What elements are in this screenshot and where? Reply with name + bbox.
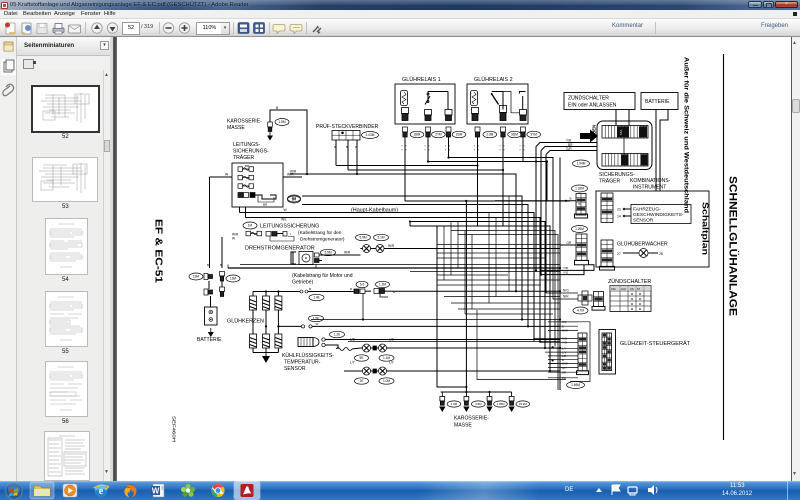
svg-text:KÜHLFLÜSSIGKEITS-: KÜHLFLÜSSIGKEITS-: [282, 352, 334, 359]
svg-text:B: B: [570, 197, 572, 201]
svg-text:KAROSSERIE-: KAROSSERIE-: [227, 119, 262, 125]
svg-text:GLÜHRELAIS 2: GLÜHRELAIS 2: [474, 76, 513, 83]
svg-text:TRÄGER: TRÄGER: [233, 154, 255, 161]
svg-text:3QM: 3QM: [511, 133, 518, 137]
svg-text:27: 27: [617, 252, 621, 256]
svg-text:KOMBINATIONS-: KOMBINATIONS-: [630, 178, 671, 184]
svg-text:(Kabelstrang für den: (Kabelstrang für den: [298, 230, 342, 236]
connector cross zuendschalter: [578, 291, 592, 305]
glow plug R1: [250, 296, 257, 310]
svg-text:BATTERIE: BATTERIE: [197, 337, 222, 343]
connector 19M: [189, 273, 203, 280]
diode D2: [374, 245, 386, 253]
svg-text:ACC: ACC: [621, 288, 626, 291]
relay K1 contact arm: [425, 92, 430, 105]
wires diode group: [344, 348, 560, 371]
svg-text:W/R: W/R: [388, 244, 395, 248]
svg-text:MASSE: MASSE: [227, 125, 245, 131]
svg-text:Y/G: Y/G: [563, 271, 569, 275]
svg-text:EIN oder ANLASSEN: EIN oder ANLASSEN: [568, 103, 617, 109]
connector pair row 1: [204, 274, 213, 280]
bus corner y230 down: [451, 231, 555, 347]
connector 1.05M: [494, 401, 508, 407]
svg-text:15A: 15A: [619, 130, 623, 135]
connector 2TM: [432, 131, 446, 137]
mesh row y296: [444, 296, 560, 298]
svg-text:1.05M: 1.05M: [496, 402, 505, 406]
connector boxes row1 right: [374, 289, 396, 294]
connector ladder 1.32M: [576, 194, 586, 216]
svg-text:B: B: [579, 202, 581, 206]
svg-text:W: W: [284, 208, 288, 212]
svg-text:º: º: [474, 149, 476, 153]
wire W/L from fuse box bottom: [245, 207, 247, 218]
connector 13M: [226, 275, 240, 282]
glow indicator lamp: [617, 249, 663, 258]
svg-text:Drehstromgenerator): Drehstromgenerator): [300, 237, 345, 243]
instrument cluster box: [596, 191, 709, 267]
wire into zuendschalter N/G: [546, 292, 578, 294]
wmp: [63, 484, 77, 497]
connector 5.6M: [356, 281, 368, 287]
connector 1.69M: [567, 382, 585, 389]
svg-text:SEF460H: SEF460H: [172, 416, 177, 442]
tool icon 2: [254, 23, 265, 34]
svg-text:1.8M: 1.8M: [278, 120, 285, 124]
wire ground top to node B: [270, 110, 307, 174]
svg-text:1.0M: 1.0M: [383, 379, 390, 383]
connector 5.1M: [374, 234, 389, 240]
junction dots mesh: [465, 200, 561, 349]
adobe reader active button: [234, 482, 260, 500]
bus wire y201 haupt: [405, 200, 570, 202]
svg-text:1.94M: 1.94M: [577, 162, 586, 166]
bundle wire drehstrom upper: [227, 265, 229, 269]
mesh left connects: [437, 245, 560, 286]
connector 1.2M row: [376, 281, 390, 287]
speed sensor box FAHRZEUG-GESCHWINDIGKEITS-SENSOR: [631, 205, 691, 224]
connector 1.32M: [572, 185, 588, 192]
svg-text:15.2M: 15.2M: [519, 402, 528, 406]
svg-text:R: R: [334, 145, 336, 149]
wire row2 long: [311, 319, 560, 321]
svg-text:3YM: 3YM: [530, 133, 537, 137]
next page: [107, 23, 117, 33]
svg-text:GLÜHRELAIS 1: GLÜHRELAIS 1: [402, 76, 441, 83]
svg-text:º: º: [445, 149, 447, 153]
fusible link F6: [266, 232, 287, 237]
connector 1.8M: [275, 119, 289, 126]
connector 1.26M: [572, 226, 588, 233]
wire loop PU row: [477, 310, 566, 380]
print icon: [53, 28, 64, 33]
glow plug R4: [250, 334, 257, 348]
svg-text:L/Y: L/Y: [389, 361, 395, 365]
bus wire y170: [348, 170, 503, 226]
control unit harness connector: [578, 333, 587, 371]
svg-text:5.1M: 5.1M: [377, 236, 384, 240]
bus wire y161: [428, 161, 523, 163]
sep: [85, 22, 86, 34]
connector 1.2E: [330, 331, 345, 337]
arrow OBEN: [580, 130, 598, 143]
envelope icon: [69, 25, 81, 33]
harness feeder wires: [548, 322, 578, 378]
glow plug row1 wires: [253, 290, 280, 326]
svg-text:8M: 8M: [292, 197, 297, 201]
svg-text:(Kabelstrang für Motor und: (Kabelstrang für Motor und: [292, 273, 353, 279]
connector ladder A kombinationsinstrument: [601, 193, 613, 222]
svg-text:B: B: [276, 106, 279, 110]
connector 5.5M: [321, 249, 336, 255]
bus corner y221 down: [410, 222, 545, 349]
fuse strip 1: [602, 126, 648, 139]
svg-text:L/B: L/B: [389, 338, 394, 342]
vertical G/R down: [545, 155, 547, 294]
relay K2 pin mid: [500, 106, 507, 121]
connector ladder 1.26M: [576, 234, 587, 260]
explorer button: [30, 482, 54, 499]
comment bubble 2: [290, 25, 302, 34]
wire W down left: [209, 177, 211, 268]
svg-text:W/R: W/R: [344, 251, 351, 255]
svg-text:L: L: [290, 232, 292, 236]
svg-text:GLÜHKERZEN: GLÜHKERZEN: [227, 318, 264, 325]
wires W/R alternator: [322, 254, 361, 256]
wire W/R right of fuse box: [283, 176, 302, 178]
svg-text:BATTERIE: BATTERIE: [645, 99, 670, 105]
svg-text:L/B: L/B: [350, 338, 355, 342]
svg-text:L/Y: L/Y: [350, 361, 356, 365]
relay K2 contact fixed: [520, 92, 526, 110]
inline connector mid bus: [301, 322, 560, 328]
bus corner y196 down: [302, 196, 522, 320]
vertical Y/R down: [535, 147, 537, 271]
bundle wire y271: [410, 271, 560, 273]
wire loop BR inside fuse box: [255, 195, 276, 199]
mesh vertical x509: [508, 196, 510, 291]
svg-text:º: º: [504, 149, 506, 153]
connector 2SM: [452, 131, 466, 137]
svg-text:SCHNELLGLÜHANLAGE: SCHNELLGLÜHANLAGE: [727, 176, 740, 316]
svg-text:Getriebe): Getriebe): [292, 280, 314, 286]
connector 2E: [355, 378, 369, 384]
svg-text:5.9M: 5.9M: [359, 236, 366, 240]
relay K1 top link: [428, 91, 448, 93]
alternator connector pins: [315, 253, 323, 263]
svg-text:1.26M: 1.26M: [575, 227, 584, 231]
sensor zigzag wire: [336, 348, 352, 351]
link square diodes row2: [373, 369, 377, 374]
svg-text:19M: 19M: [193, 275, 200, 279]
svg-text:GLÜHÜBERWACHER: GLÜHÜBERWACHER: [617, 241, 668, 248]
svg-text:SENSOR: SENSOR: [284, 366, 306, 372]
svg-text:4.9M: 4.9M: [475, 402, 482, 406]
svg-text:G/R: G/R: [566, 147, 572, 151]
svg-text:23: 23: [617, 208, 621, 212]
svg-text:TRÄGER: TRÄGER: [599, 178, 621, 185]
connector 4.7M: [573, 307, 588, 314]
svg-text:2TM: 2TM: [435, 133, 442, 137]
wire into zuendschalter N/R: [553, 201, 578, 299]
relay K2 pin 3 below: [521, 127, 526, 137]
connector 1.4E: [309, 294, 324, 300]
wire to battery: [210, 296, 212, 307]
svg-text:B: B: [220, 263, 222, 267]
wire labels column: [562, 320, 568, 380]
svg-text:5.5M: 5.5M: [324, 251, 331, 255]
svg-text:W: W: [316, 322, 319, 326]
svg-text:LEITUNGSSICHERUNG: LEITUNGSSICHERUNG: [260, 224, 319, 230]
svg-text:1.5E: 1.5E: [313, 317, 320, 321]
svg-text:1.9M: 1.9M: [451, 402, 458, 406]
ground G2 1.9M: [440, 392, 445, 405]
svg-text:OFF: OFF: [611, 288, 616, 291]
wire Y/B from ladder 1.26M: [540, 265, 594, 271]
sep: [306, 22, 307, 34]
fuse box sicherungstraeger: [597, 121, 652, 170]
ground G4 1.05M: [487, 392, 492, 405]
junction dots top buses: [306, 156, 548, 175]
svg-text:Y/B: Y/B: [563, 266, 568, 270]
svg-text:W: W: [152, 486, 160, 495]
mesh vertical x489: [488, 213, 490, 304]
main ground vertical: [465, 201, 467, 392]
saveas icon: [22, 23, 31, 34]
temp sensor connector: [322, 338, 332, 347]
svg-text:Schaltplan: Schaltplan: [701, 202, 710, 255]
svg-text:26: 26: [659, 252, 663, 256]
long row y341: [348, 341, 560, 343]
svg-text:SENSOR: SENSOR: [633, 218, 654, 224]
connector J1 pruef-steckverbinder grid: [332, 131, 360, 141]
fusible link F3: [238, 184, 254, 189]
svg-text:GESCHWINDIGKEITS-: GESCHWINDIGKEITS-: [633, 212, 684, 218]
svg-text:W/L: W/L: [281, 218, 287, 222]
svg-text:W/R: W/R: [290, 170, 297, 174]
svg-text:LEITUNGS-: LEITUNGS-: [233, 142, 260, 148]
wire W left of fuse box: [210, 176, 233, 178]
svg-text:º: º: [500, 149, 502, 153]
glow plug R5: [263, 334, 270, 348]
svg-text:OR: OR: [567, 241, 572, 245]
svg-text:W: W: [232, 237, 235, 241]
connector 15.2M: [516, 401, 530, 407]
svg-text:R: R: [350, 287, 353, 291]
relay K2 gluehrelais 2 box: [467, 84, 528, 124]
svg-text:º: º: [524, 149, 526, 153]
svg-text:B: B: [346, 145, 348, 149]
fusible link F1: [238, 167, 254, 172]
svg-text:1.69M: 1.69M: [571, 383, 580, 387]
svg-text:1.2E: 1.2E: [334, 333, 341, 337]
battery box BATTERIE: [641, 93, 678, 110]
wire W from fuse box bottom: [239, 207, 241, 213]
internet explorer: [94, 484, 109, 497]
wire batterie feed B: [660, 110, 668, 192]
zoom in: [179, 23, 189, 33]
relay K1 gluehrelais 1 box: [395, 84, 455, 124]
wire drop relay2 pin2: [502, 137, 504, 170]
relay K2 switch blade: [491, 93, 499, 105]
diode D1: [361, 245, 373, 253]
zoom out: [163, 23, 173, 33]
ground arrow 5: [508, 407, 514, 413]
connector 5E: [355, 355, 369, 361]
ground G3 4.9M: [464, 392, 469, 405]
bundle wire drehstrom thick: [228, 267, 560, 269]
svg-text:ZÜNDSCHALTER: ZÜNDSCHALTER: [608, 278, 651, 285]
page margin rule: [723, 54, 725, 440]
ground arrow 2: [439, 407, 445, 413]
svg-text:B: B: [309, 287, 311, 291]
connector pair row 2: [204, 289, 213, 295]
bus wire grounds vertical: [437, 226, 466, 387]
mesh vertical x472: [471, 235, 473, 310]
svg-text:e: e: [99, 486, 104, 497]
wire row1 to right: [316, 291, 354, 293]
svg-text:º: º: [520, 149, 522, 153]
svg-text:2SM: 2SM: [456, 133, 463, 137]
svg-text:1M: 1M: [248, 224, 253, 228]
svg-text:OBEN: OBEN: [592, 125, 597, 137]
svg-text:B: B: [207, 263, 209, 267]
relay K2 coil: [471, 91, 478, 106]
svg-text:1.4E: 1.4E: [313, 296, 320, 300]
relay K1 pin mid: [425, 110, 432, 121]
ground G5 15.2M: [509, 392, 514, 405]
svg-text:2E: 2E: [360, 379, 364, 383]
bus wire grounds: [441, 391, 512, 393]
tool icon 1: [238, 23, 249, 34]
relay K2 top link: [492, 91, 503, 93]
svg-text:14: 14: [617, 215, 621, 219]
system tray: [565, 487, 573, 493]
fusible link F4: [238, 193, 255, 198]
svg-text:DREHSTROMGENERATOR: DREHSTROMGENERATOR: [245, 246, 315, 252]
svg-text:2.3M: 2.3M: [486, 133, 493, 137]
connector 1.9M: [447, 401, 461, 407]
connector 4.9M: [472, 401, 486, 407]
bus corner y234 down: [458, 235, 558, 391]
wire into ladder 1.32M: [495, 200, 576, 202]
share arrows: [313, 28, 321, 32]
svg-text:ZÜNDSCHALTER: ZÜNDSCHALTER: [568, 95, 609, 102]
svg-text:BR: BR: [263, 203, 268, 207]
vertical BR down: [540, 151, 542, 275]
wire loop around control unit: [548, 322, 590, 382]
coolant temp sensor body: [298, 338, 319, 347]
fuse link row1: [354, 289, 371, 294]
start orb: [5, 482, 23, 500]
switch box ZUENDSCHALTER EIN oder ANLASSEN: [564, 93, 635, 110]
relay K2 inner wire: [503, 92, 520, 113]
thumbnails: [31, 85, 100, 133]
connector 2BM: [410, 131, 424, 137]
relay K1 pin right: [445, 110, 452, 121]
sep: [233, 22, 234, 34]
mesh row y309: [458, 308, 560, 310]
bus corner y204 down: [302, 205, 528, 327]
svg-text:KAROSSERIE-: KAROSSERIE-: [454, 416, 489, 422]
save icon (disabled): [37, 24, 47, 34]
connector 8M: [288, 195, 301, 202]
fusible link F2: [238, 175, 254, 180]
connector ladder B kombinationsinstrument: [601, 240, 613, 266]
temp sensor wires right: [332, 339, 560, 341]
fuse strip 2 dark cells: [622, 154, 648, 165]
relay K1 pin 2 below: [426, 127, 431, 137]
connector 1.1M: [379, 355, 394, 361]
bus wire y165: [336, 166, 478, 227]
chrome: [212, 484, 225, 497]
glow plug R2: [263, 296, 270, 310]
inline connector row1: [300, 287, 316, 293]
ignition switch contact table: [610, 286, 651, 312]
vertical wire x560: [559, 158, 561, 391]
bus corner W/L down: [246, 218, 541, 342]
connector 1.94M: [573, 160, 590, 167]
ground arrow 3: [463, 407, 469, 413]
connector 1.5E: [309, 315, 324, 321]
connector 6M: [288, 196, 301, 203]
svg-text:SICHERUNGS-: SICHERUNGS-: [233, 149, 269, 155]
wire drop relay1 pin2: [427, 137, 429, 162]
connector pin row 2: [220, 287, 225, 297]
glow plug row2 bottom wires: [253, 348, 278, 353]
relay K2 pin 1 below: [475, 127, 480, 137]
wire Y/G from ladder 1.26M: [540, 265, 584, 275]
connector 3QM: [508, 131, 522, 137]
glow plug R3: [275, 296, 282, 310]
svg-text:º: º: [478, 149, 480, 153]
relay K2 pin 2 below: [501, 127, 506, 137]
diode D4: [377, 344, 389, 352]
wire drop relay2 pin1: [477, 137, 479, 166]
svg-text:5E: 5E: [360, 356, 364, 360]
wire down from fuse row: [221, 237, 223, 268]
firefox: [124, 484, 137, 497]
svg-text:FAHRZEUG-: FAHRZEUG-: [633, 207, 661, 213]
svg-text:º: º: [402, 149, 404, 153]
sep: [269, 22, 270, 34]
svg-text:4.7M: 4.7M: [577, 309, 584, 313]
fuse strip 2: [602, 154, 648, 167]
connector ladder zuendschalter: [594, 292, 604, 307]
svg-text:13M: 13M: [230, 277, 237, 281]
svg-text:ON: ON: [630, 288, 634, 291]
sep: [159, 22, 160, 34]
control unit connector right: [599, 330, 616, 375]
bus corner W/R down: [290, 174, 516, 291]
svg-text:Außer für die Schweiz und West: Außer für die Schweiz und Westdeutschlan…: [683, 57, 690, 213]
svg-text:R: R: [393, 290, 396, 294]
wire strip1 to strip2: [623, 138, 625, 154]
connector 5.9M: [356, 234, 371, 240]
svg-text:MASSE: MASSE: [454, 423, 472, 429]
svg-text:5.6: 5.6: [360, 283, 365, 287]
ground arrow 4: [486, 407, 492, 413]
glow plug row2 top stubs: [253, 325, 280, 334]
connector 3YM: [527, 131, 541, 137]
battery B1: [205, 307, 218, 325]
svg-text:1.03M: 1.03M: [366, 133, 375, 137]
wire drop relay1 pin1: [404, 137, 406, 201]
svg-text:INSTRUMENT: INSTRUMENT: [633, 185, 666, 191]
bundle wire y264: [240, 264, 560, 266]
mesh verticals left: [437, 222, 458, 286]
wire zuendschalter to fuse strip: [615, 110, 617, 126]
